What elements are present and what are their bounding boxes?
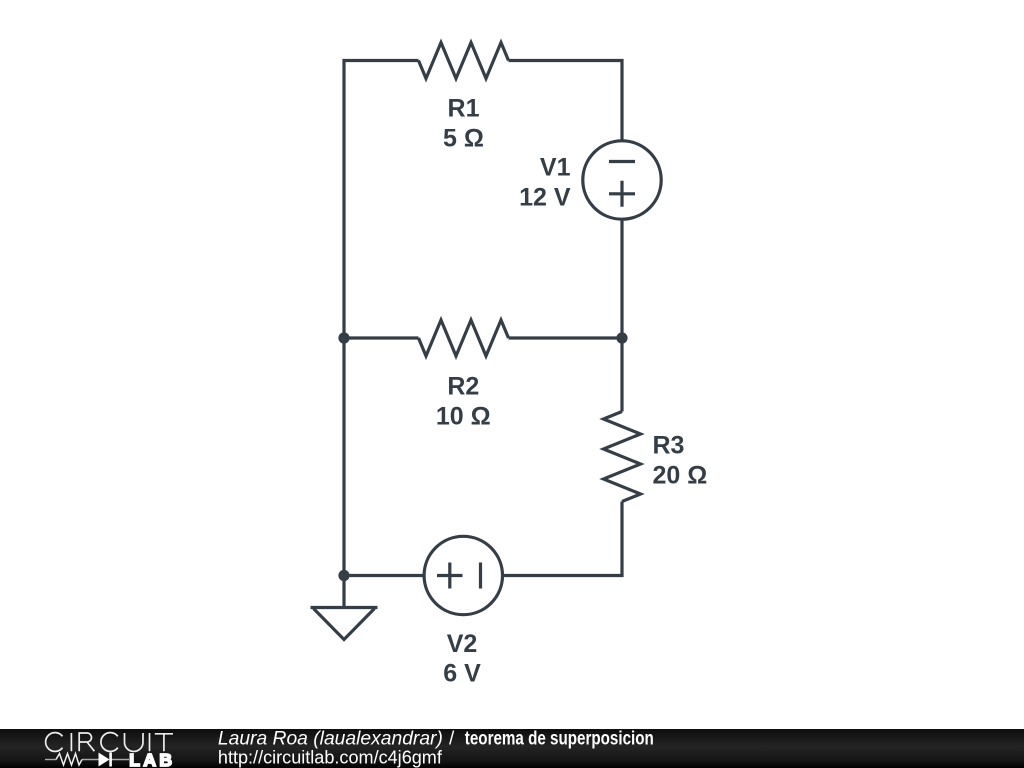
- svg-text:http://circuitlab.com/c4j6gmf: http://circuitlab.com/c4j6gmf: [218, 748, 443, 768]
- svg-text:LAB: LAB: [129, 750, 175, 768]
- svg-text:V1: V1: [540, 154, 571, 182]
- svg-text:5 Ω: 5 Ω: [443, 124, 484, 152]
- svg-text:R2: R2: [447, 373, 479, 401]
- svg-text:10 Ω: 10 Ω: [436, 403, 491, 431]
- svg-text:Laura Roa (laualexandrar): Laura Roa (laualexandrar): [218, 729, 443, 750]
- svg-text:R1: R1: [448, 95, 480, 123]
- svg-text:12 V: 12 V: [519, 184, 571, 212]
- svg-text:R3: R3: [653, 431, 685, 459]
- svg-text:/: /: [449, 729, 455, 750]
- svg-text:teorema de superposicion: teorema de superposicion: [465, 729, 654, 750]
- svg-text:V2: V2: [447, 630, 478, 658]
- svg-text:6 V: 6 V: [443, 660, 481, 688]
- svg-text:20 Ω: 20 Ω: [653, 461, 708, 489]
